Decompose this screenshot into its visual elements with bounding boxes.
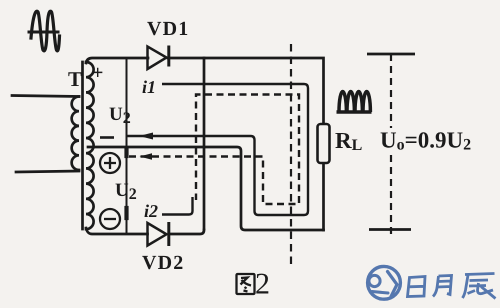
caption 图2 — [237, 274, 255, 294]
svg-text:2: 2 — [255, 268, 270, 301]
wire secondary top to VD1 anode — [86, 58, 148, 63]
diode VD2 — [148, 222, 169, 246]
辰 — [463, 274, 496, 299]
logo text 日月辰 — [408, 274, 496, 299]
月 — [433, 276, 452, 297]
dimension Uo top bar — [367, 53, 415, 56]
svg-text:T: T — [68, 67, 82, 91]
label circled minus — [100, 209, 120, 229]
svg-text:Uo=0.9U2: Uo=0.9U2 — [380, 128, 471, 154]
svg-text:VD2: VD2 — [142, 252, 185, 274]
wire center tap return — [88, 147, 324, 230]
svg-text:VD1: VD1 — [147, 18, 190, 40]
wire VD2 cathode to riser — [169, 230, 204, 234]
wire primary upper lead — [12, 96, 79, 97]
svg-text:i1: i1 — [142, 77, 156, 97]
label circled plus — [100, 153, 120, 173]
resistor RL — [318, 124, 330, 163]
arrow i1 — [139, 133, 153, 140]
AC source sine symbol — [29, 11, 60, 51]
wire diode-junction riser — [203, 58, 206, 229]
current loop i1 solid spiral — [127, 84, 309, 215]
wire i2 entry stub — [162, 197, 193, 215]
waveform output symbol — [337, 92, 372, 113]
svg-text:i2: i2 — [144, 201, 158, 221]
svg-text:+: + — [92, 62, 103, 84]
arrow i2 — [140, 153, 153, 160]
current loop i2 dashed spiral — [129, 95, 299, 205]
transformer T secondary winding — [86, 62, 94, 229]
logo icon circle — [368, 266, 401, 299]
node center tap junction — [124, 150, 128, 156]
wire VD1 cathode to RL top corner — [168, 58, 324, 124]
label minus upper — [100, 136, 114, 139]
dimension Uo dashed line — [390, 54, 392, 236]
diode VD1 — [148, 46, 169, 70]
日 — [408, 277, 426, 297]
wire primary lower lead — [16, 171, 79, 172]
transformer T primary winding — [72, 97, 79, 171]
node symmetry axis dashed — [290, 44, 292, 268]
node lower terminal mark — [124, 208, 128, 218]
wire secondary bottom to VD2 anode — [86, 228, 148, 234]
dimension Uo bottom bar — [369, 228, 411, 231]
node U2 measurement line — [126, 58, 128, 234]
transformer core — [81, 62, 84, 229]
wire RL bottom lead — [322, 163, 325, 230]
